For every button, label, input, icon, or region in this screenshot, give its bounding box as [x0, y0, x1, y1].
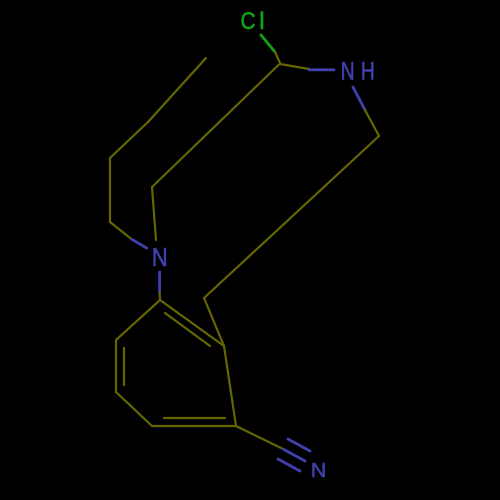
nitrile triple bond lower line [278, 459, 300, 471]
bond ring-nitrile carbon [236, 426, 281, 448]
benzene inner line left [123, 348, 125, 385]
svg-text:N: N [341, 57, 355, 85]
nitrile triple bond middle line [283, 449, 305, 461]
bond N1-C3 (carbon half) [365, 110, 379, 136]
benzene edge L2-Bm [116, 392, 152, 426]
benzene inner line top-right [165, 313, 210, 346]
benzene edge R1-T [160, 300, 224, 346]
benzene edge L1-L2 [115, 340, 117, 392]
svg-text:N: N [152, 243, 168, 272]
bond chain to ring vertex R1 [204, 298, 224, 346]
methyl chain top bond [148, 58, 206, 122]
benzene inner line bottom [164, 417, 225, 419]
svg-text:l: l [259, 8, 264, 35]
bond C2-N1 (blue half) [309, 68, 334, 71]
chain vertical bond [109, 158, 111, 222]
benzene edge R2-R1 [224, 346, 236, 426]
svg-text:N: N [311, 460, 327, 482]
bond Cl-C2 (carbon half) [275, 52, 280, 63]
bond chain-N2 (carbon half) [110, 222, 132, 239]
bond chain-N2 (blue half) [132, 239, 147, 248]
svg-text:H: H [361, 57, 375, 85]
bond N2-ring (blue half) [158, 272, 161, 293]
chain bond kink [110, 122, 148, 158]
bond C2-N1 (carbon half) [280, 64, 309, 69]
chain run C2 down-left [152, 65, 279, 188]
benzene edge Bm-R2 [152, 425, 236, 427]
bond chain to N2 vertical [152, 187, 156, 240]
bond Cl-C2 (green half) [261, 35, 275, 52]
bond N1-C3 (blue half) [353, 87, 365, 110]
atom label NH [341, 57, 375, 85]
svg-text:C: C [241, 8, 256, 35]
benzene edge T-L1 [116, 300, 160, 340]
bond N2-ring (carbon half) [159, 293, 162, 300]
atom label Cl [241, 8, 265, 35]
chain run C3 down-left [204, 136, 379, 298]
nitrile triple bond upper line [288, 439, 310, 451]
